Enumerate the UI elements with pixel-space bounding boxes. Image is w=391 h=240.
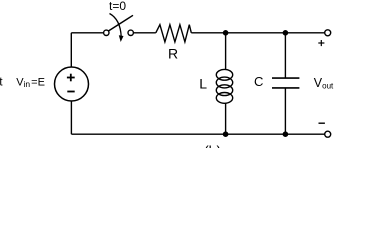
wire from switch to resistor: [133, 32, 155, 34]
capacitor C bottom plate: [272, 87, 299, 89]
resistor R zigzag: [156, 25, 192, 42]
switch blade: [108, 15, 133, 31]
junction node bottom of C: [283, 131, 289, 137]
svg-text:R: R: [168, 45, 178, 61]
wire top of capacitor: [284, 33, 286, 78]
bottom wire rail: [71, 133, 324, 135]
wire from resistor to right terminal (top rail): [191, 32, 324, 34]
wire bottom of capacitor: [284, 88, 286, 134]
wire bottom of inductor: [225, 103, 227, 134]
svg-text:C: C: [254, 74, 263, 89]
svg-text:Vin=E: Vin=E: [16, 76, 45, 89]
svg-text:L: L: [199, 75, 207, 91]
output terminal bottom-right open circle: [325, 131, 331, 137]
svg-text:Vout: Vout: [314, 76, 334, 90]
voltage source minus sign: [67, 91, 74, 93]
wire top of inductor: [225, 33, 227, 70]
svg-text:t: t: [0, 75, 3, 89]
switch left contact: [104, 30, 109, 35]
switch right contact: [128, 30, 133, 35]
junction node top of C: [283, 30, 289, 36]
switch closing arc: [110, 14, 122, 37]
switch arrowhead: [119, 35, 124, 42]
capacitor C top plate: [272, 77, 299, 79]
output terminal top-right open circle: [325, 30, 331, 36]
voltage source plus sign: [67, 74, 75, 82]
plus polarity mark near top terminal: [318, 40, 324, 46]
svg-text:(b): (b): [204, 143, 221, 149]
junction node bottom of L: [223, 131, 229, 137]
svg-text:t=0: t=0: [109, 0, 126, 13]
voltage source Vin circle: [55, 67, 89, 101]
wire from source bottom to bottom rail: [70, 101, 72, 134]
minus polarity mark near bottom terminal: [319, 122, 325, 124]
inductor L coil: [216, 69, 232, 103]
junction node top of L: [223, 30, 229, 36]
wire left vertical from top wire down to source circle: [70, 33, 72, 67]
wire top-left horizontal from source branch to switch: [71, 32, 103, 34]
